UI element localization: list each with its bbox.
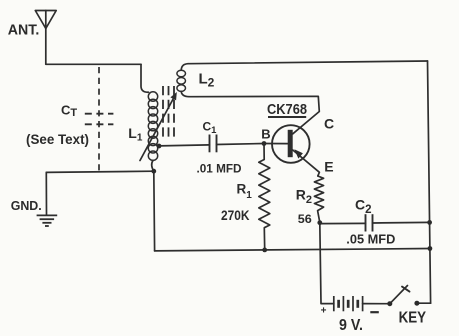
wire C2 to right rail: [373, 221, 430, 224]
arrowhead of tuning arrow: [170, 92, 176, 100]
svg-text:B: B: [261, 127, 270, 142]
wire C1 to base B: [217, 144, 265, 145]
underline CK768: [268, 116, 306, 118]
node key right contact: [414, 301, 419, 306]
node L1 tap: [157, 144, 162, 149]
inductor L1: [148, 92, 157, 161]
svg-text:CK768: CK768: [267, 102, 307, 118]
svg-text:9 V.: 9 V.: [339, 317, 363, 334]
label - battery: [370, 311, 379, 313]
wire L2 bottom exit: [181, 91, 189, 96]
emitter arrowhead (PNP): [294, 149, 303, 158]
capacitor C2: [366, 214, 373, 231]
capacitor CT plates (dashed): [85, 114, 114, 125]
svg-text:C: C: [324, 115, 334, 131]
wire L1 tap to C1: [159, 145, 210, 146]
inductor L2: [177, 70, 186, 91]
antenna ANT. symbol: [35, 11, 56, 29]
wire emitter lead: [293, 150, 320, 176]
svg-text:ANT.: ANT.: [8, 22, 40, 39]
key switch handle tick: [402, 287, 410, 292]
node R1 bottom: [262, 248, 267, 253]
wire L2 top entry: [181, 64, 188, 70]
resistor R1: [259, 144, 270, 250]
svg-text:.01 MFD: .01 MFD: [197, 162, 242, 176]
wire antenna horizontal to L1: [46, 63, 141, 65]
node B: [262, 141, 267, 146]
wire GND drop: [45, 172, 47, 214]
node key left contact: [387, 301, 392, 306]
wire antenna feed down: [45, 29, 47, 65]
transistor base bar: [288, 130, 293, 157]
transistor Q1 circle CK768: [272, 125, 310, 163]
wire battery feed down: [320, 223, 334, 304]
wire ground rail horizontal (GND to L1 bottom): [46, 171, 154, 172]
tuning arrow through L1: [140, 97, 174, 161]
transformer core (dashed): [163, 86, 174, 139]
wire collector flag: L2 bottom to transistor collector: [189, 96, 319, 134]
wire right vertical rail: [428, 61, 431, 303]
wire down into L1 top: [141, 64, 149, 92]
resistor R2: [314, 176, 323, 223]
svg-text:56: 56: [298, 212, 312, 226]
svg-text:+: +: [321, 305, 327, 316]
wire L1 bottom exit: [152, 160, 154, 171]
wire R2 bottom to C2: [320, 222, 366, 224]
wire top rail L2 to right side: [188, 61, 428, 64]
wire battery to key: [363, 303, 390, 305]
capacitor CT dashed lead: [98, 67, 100, 172]
svg-text:(See Text): (See Text): [26, 131, 89, 147]
svg-text:KEY: KEY: [399, 310, 427, 327]
svg-text:GND.: GND.: [11, 199, 42, 213]
svg-text:.05 MFD: .05 MFD: [346, 231, 395, 246]
node L1 bottom / ground rail: [151, 169, 156, 174]
node R2 / C2 / battery: [317, 220, 322, 225]
wire base lead: [264, 143, 288, 145]
svg-text:E: E: [324, 158, 333, 174]
ground symbol: [37, 215, 58, 226]
wire key to right rail: [417, 302, 431, 304]
battery B1 9V plates: [334, 296, 363, 311]
wire L1 bottom down to bottom rail: [153, 171, 156, 251]
svg-text:270K: 270K: [221, 207, 250, 223]
node rail right: [428, 246, 433, 251]
capacitor C1: [210, 135, 217, 153]
key switch lever: [390, 286, 408, 304]
node C2 right: [427, 220, 432, 225]
wire bottom rail: [155, 249, 430, 251]
